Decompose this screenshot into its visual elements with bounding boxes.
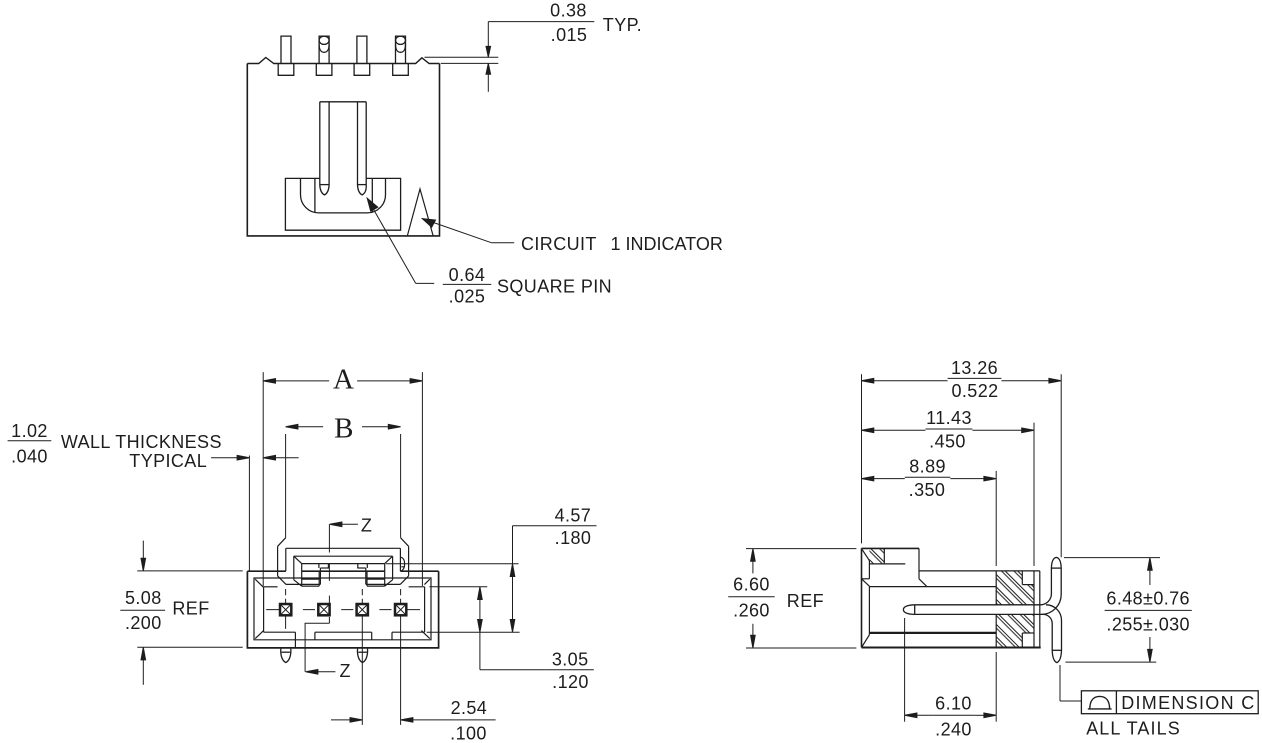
- svg-text:11.43: 11.43: [926, 408, 972, 428]
- svg-text:TYP.: TYP.: [603, 15, 642, 35]
- svg-text:Z: Z: [361, 515, 372, 535]
- svg-text:DIMENSION C: DIMENSION C: [1121, 693, 1255, 713]
- svg-text:WALL THICKNESS: WALL THICKNESS: [61, 432, 222, 452]
- svg-text:0.522: 0.522: [951, 381, 998, 401]
- svg-text:0.64: 0.64: [449, 265, 486, 285]
- svg-text:B: B: [334, 413, 353, 445]
- svg-text:TYPICAL: TYPICAL: [129, 451, 207, 471]
- svg-text:2.54: 2.54: [451, 698, 488, 718]
- svg-text:.255±.030: .255±.030: [1106, 614, 1190, 634]
- svg-text:1 INDICATOR: 1 INDICATOR: [611, 234, 723, 254]
- svg-text:6.48±0.76: 6.48±0.76: [1106, 588, 1190, 608]
- svg-text:4.57: 4.57: [555, 506, 592, 526]
- svg-text:.200: .200: [125, 613, 162, 633]
- svg-text:.180: .180: [555, 528, 592, 548]
- svg-text:.100: .100: [450, 723, 487, 743]
- svg-text:CIRCUIT: CIRCUIT: [521, 234, 597, 254]
- svg-text:.260: .260: [733, 601, 770, 621]
- svg-text:.240: .240: [935, 719, 972, 739]
- svg-text:5.08: 5.08: [125, 588, 162, 608]
- svg-text:1.02: 1.02: [11, 421, 48, 441]
- svg-text:13.26: 13.26: [951, 358, 998, 378]
- svg-text:6.60: 6.60: [733, 575, 770, 595]
- svg-text:6.10: 6.10: [935, 693, 972, 713]
- svg-text:REF: REF: [172, 599, 209, 619]
- svg-text:SQUARE PIN: SQUARE PIN: [497, 276, 612, 296]
- svg-text:8.89: 8.89: [909, 456, 946, 476]
- svg-text:0.38: 0.38: [550, 1, 587, 21]
- svg-text:.450: .450: [929, 432, 966, 452]
- svg-text:.015: .015: [551, 25, 588, 45]
- svg-text:.350: .350: [909, 480, 946, 500]
- svg-text:.040: .040: [11, 446, 48, 466]
- svg-text:ALL TAILS: ALL TAILS: [1086, 719, 1181, 739]
- svg-text:A: A: [333, 364, 354, 396]
- svg-text:3.05: 3.05: [552, 650, 589, 670]
- svg-text:Z: Z: [340, 661, 351, 681]
- svg-text:REF: REF: [787, 591, 824, 611]
- svg-text:.025: .025: [449, 286, 486, 306]
- svg-text:.120: .120: [552, 672, 589, 692]
